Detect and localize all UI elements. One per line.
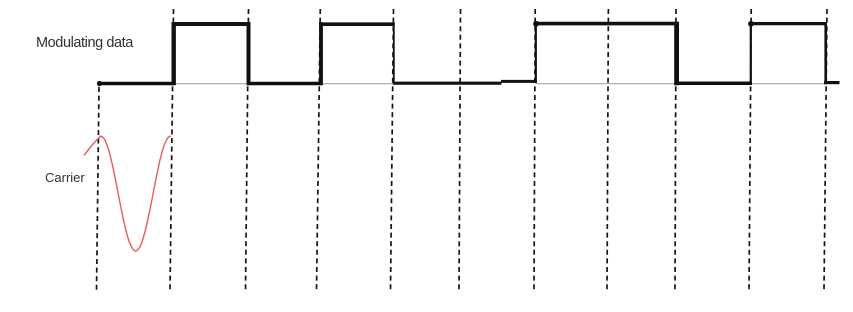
dashed gridline 11 <box>824 9 827 291</box>
pulse 4 corner dot <box>748 21 754 27</box>
dashed gridline 9 <box>675 9 676 291</box>
pulse 1 rising edge <box>171 22 175 85</box>
zero-level thin gray line (right part) <box>536 83 826 85</box>
svg-text:Modulating data: Modulating data <box>36 35 134 51</box>
dashed gridline 5 <box>391 9 394 291</box>
dashed gridline 4 <box>317 9 321 291</box>
svg-text:Carrier: Carrier <box>45 170 85 185</box>
pulse 2 falling edge (thin) <box>393 22 395 84</box>
dashed gridline 1 <box>97 87 100 291</box>
dashed gridline 8 <box>607 9 608 291</box>
carrier sine wave <box>84 136 170 251</box>
data low segment 3a <box>393 82 502 85</box>
zero-level thin gray line <box>173 83 502 85</box>
data low segment 2 <box>247 82 322 86</box>
pulse 3 rising edge (thin) <box>535 23 537 83</box>
pulse 1 falling edge <box>247 22 251 85</box>
dashed gridline 7 <box>534 9 535 291</box>
pulse 2 rising edge <box>319 22 323 85</box>
pulse 4 rising edge (thin) <box>750 23 752 84</box>
pulse 2 top <box>319 22 395 26</box>
dashed gridline 10 <box>749 9 751 291</box>
data end stub <box>824 81 840 84</box>
dashed gridline 6 <box>459 9 461 291</box>
pulse 3 top <box>535 22 678 26</box>
pulse 3 corner dot <box>533 21 539 27</box>
data low segment 3b (stepped up) <box>501 80 537 83</box>
data start dot <box>97 81 102 86</box>
data low segment 1 <box>100 82 175 86</box>
dashed gridline 2 <box>170 9 174 291</box>
pulse 1 top <box>172 22 251 26</box>
pulse 4 top <box>750 22 827 25</box>
data low segment 4 <box>675 82 753 86</box>
dashed gridline 3 <box>246 9 249 291</box>
pulse 3 falling edge <box>674 22 679 85</box>
pulse 4 falling edge <box>824 22 827 84</box>
